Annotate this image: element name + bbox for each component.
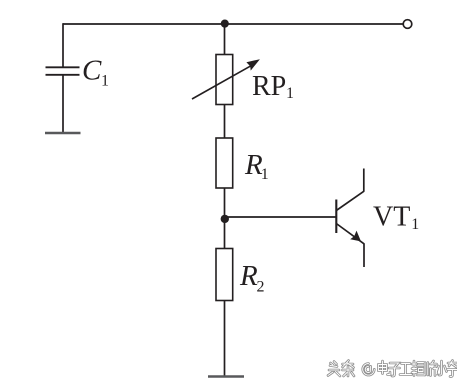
svg-text:1: 1 (261, 166, 269, 183)
wire left vertical to capacitor (62, 23, 64, 67)
watermark 头条@电子工程师小李 (328, 361, 457, 377)
wire from top node to RP1 (224, 24, 226, 56)
resistor R2 (216, 249, 233, 301)
ground terminal bar below C1 (45, 132, 81, 134)
svg-text:C: C (82, 55, 102, 87)
ground bar bottom (208, 375, 244, 377)
transistor VT1 (336, 169, 364, 268)
resistor R1 (216, 138, 233, 188)
label R2 (239, 260, 265, 296)
node base junction (221, 215, 229, 223)
svg-text:2: 2 (257, 279, 265, 296)
wire capacitor lower lead (62, 75, 64, 133)
capacitor C1 (46, 67, 80, 75)
wire top rail (63, 23, 403, 25)
wire base (node to transistor) (225, 216, 337, 218)
potentiometer RP1 (192, 55, 260, 105)
svg-text:R: R (239, 260, 258, 292)
svg-text:1: 1 (101, 73, 109, 90)
wire R2 to ground (224, 301, 226, 378)
label C1 (82, 55, 109, 90)
svg-text:1: 1 (286, 85, 294, 102)
svg-text:VT: VT (373, 201, 410, 232)
node top junction (221, 20, 229, 28)
svg-text:RP: RP (252, 71, 286, 102)
wire R1 to R2 through node (224, 188, 226, 249)
svg-text:1: 1 (411, 216, 419, 233)
label RP1 (252, 71, 294, 102)
output terminal (open circle) (403, 20, 412, 29)
label R1 (244, 149, 269, 183)
label VT1 (373, 201, 419, 233)
wire RP1 to R1 (224, 105, 226, 139)
